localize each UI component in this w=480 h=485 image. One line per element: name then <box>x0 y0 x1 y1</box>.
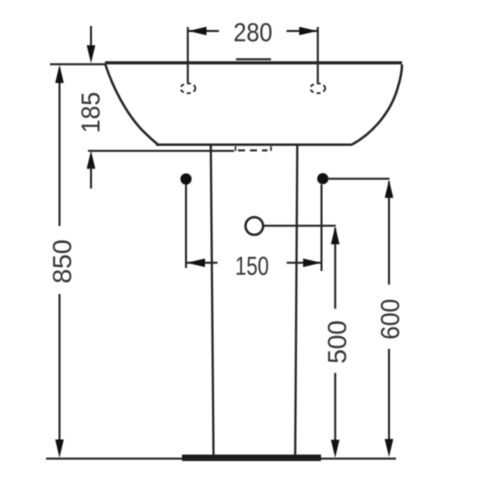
dimension 280 right arrow <box>299 27 317 36</box>
tap hole right (dashed ellipse) <box>310 83 325 93</box>
label 150 <box>237 257 269 276</box>
hidden drain dashed line <box>238 149 268 151</box>
dimension 500 line upper segment <box>334 228 336 309</box>
dimension 280 line left <box>189 30 220 32</box>
base plate <box>182 455 321 461</box>
basin top edge <box>105 61 402 64</box>
top-left extension line (850 top reference) <box>50 63 105 65</box>
dimension 850 bottom arrow <box>55 440 64 458</box>
fixing bolt right (dot) <box>317 173 328 184</box>
line from right bolt down <box>321 185 323 272</box>
dimension 850 line upper segment <box>59 68 61 226</box>
dimension 150 line right <box>287 262 321 264</box>
line from left bolt down <box>185 185 187 269</box>
line from right bolt to 600 <box>329 178 390 180</box>
dimension 500 line lower segment <box>334 373 336 452</box>
label 850 <box>53 240 72 282</box>
label 500 <box>328 321 347 362</box>
hidden drain tick right <box>270 146 272 151</box>
basin right curve <box>352 65 402 145</box>
dimension 280 line right <box>287 30 318 32</box>
label 185 <box>81 93 100 131</box>
dimension 500 bottom arrow (down) <box>331 440 340 458</box>
dimension 150 left arrow <box>187 259 205 268</box>
label 280 <box>235 23 272 42</box>
dimension 150 right arrow <box>303 259 321 268</box>
pedestal left edge <box>211 145 214 455</box>
extension line right tap hole <box>317 27 319 83</box>
dimension 280 left arrow <box>188 27 206 36</box>
floor line <box>46 458 396 460</box>
dimension 500 top arrow (up) <box>331 226 340 244</box>
line from drain circle to 500 <box>263 225 336 227</box>
dimension 185 upper line <box>90 26 92 50</box>
dimension 185 lower arrow (up) <box>87 151 96 169</box>
extension line left tap hole <box>187 27 189 83</box>
hidden drain tick left <box>235 146 237 151</box>
dimension 850 top arrow <box>55 65 64 83</box>
extension line under basin (185 reference) <box>88 150 234 152</box>
basin rim back hint <box>236 58 271 60</box>
basin left curve <box>105 64 158 145</box>
dimension 185 lower line <box>90 166 92 189</box>
dimension 600 line upper segment <box>388 182 390 285</box>
dimension 150 line left <box>187 262 218 264</box>
basin bottom edge <box>156 143 352 145</box>
tap hole left (dashed ellipse) <box>181 83 196 93</box>
fixing bolt left (dot) <box>180 173 191 184</box>
pedestal right edge <box>295 145 297 455</box>
drain circle <box>246 217 264 235</box>
dimension 185 upper arrow (down) <box>87 45 96 63</box>
label 600 <box>381 300 400 339</box>
dimension 600 bottom arrow (down) <box>385 439 394 457</box>
dimension 600 top arrow (up) <box>385 180 394 198</box>
dimension 600 line lower segment <box>388 349 390 452</box>
dimension 850 line lower segment <box>59 294 61 452</box>
